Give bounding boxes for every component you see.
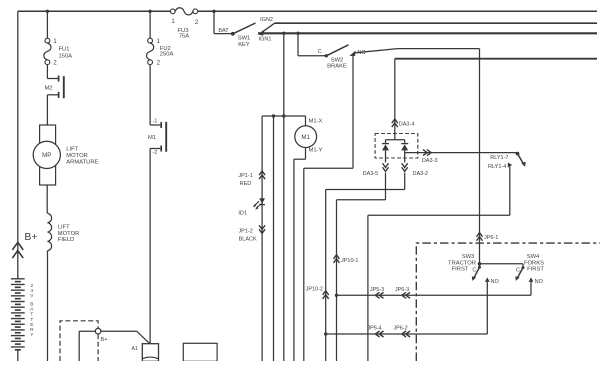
svg-text:SW3: SW3 [462, 254, 475, 260]
svg-text:JP6-3: JP6-3 [395, 287, 409, 293]
svg-text:JP10-1: JP10-1 [341, 258, 358, 264]
label JP10-2 [306, 287, 323, 293]
dashed box DA3 [375, 134, 418, 159]
switch SW3 arm [472, 266, 481, 281]
connector JP1-2 chevrons [259, 225, 265, 233]
connector JP5-3 chevrons [375, 292, 383, 298]
svg-text:JP1-2: JP1-2 [238, 229, 252, 235]
svg-text:JP6-1: JP6-1 [484, 235, 498, 241]
node: junction BAT tap [212, 10, 215, 13]
switch SW1 arm [233, 23, 256, 34]
wire: SW4 NO drop to JP5-3 rail [337, 282, 532, 295]
wire: SW2 NO right rail [398, 48, 480, 50]
svg-text:BLACK: BLACK [239, 237, 257, 243]
node: JP5-3 rail junction [335, 294, 338, 297]
label lift motor armature [66, 147, 98, 166]
svg-text:RLY1-4: RLY1-4 [488, 164, 506, 170]
svg-text:150A: 150A [59, 54, 73, 60]
connector chevrons B+ feeder [12, 242, 23, 258]
wire: SW2 common feed [282, 32, 325, 56]
svg-text:MOTOR: MOTOR [58, 231, 79, 237]
wire: top battery rail y=11 [18, 10, 597, 12]
motor MP armature circle [33, 141, 60, 168]
label JP10-1 [341, 258, 358, 264]
label B+ node [101, 337, 108, 343]
wire: JP1 drop [261, 116, 263, 361]
label A1 [132, 346, 138, 352]
label 24V BATTERY (vertical) [30, 283, 34, 338]
wire: IGN1 rail y=33 [258, 32, 597, 34]
label SW2 BRAKE [327, 57, 347, 69]
wire: DA3-3 rail [405, 152, 518, 154]
connector DA3-3 chevrons [423, 150, 431, 156]
svg-text:SW1: SW1 [238, 35, 251, 41]
label DA3-2 [413, 171, 429, 177]
label IGN2 [260, 17, 273, 23]
svg-text:T: T [30, 317, 33, 323]
svg-text:-2: -2 [153, 150, 158, 156]
node B+ terminal [95, 328, 101, 334]
label FU1 value [59, 46, 73, 59]
label SW4 C [516, 267, 520, 273]
label RLY1-7 [490, 155, 508, 161]
connector JP6-2 chevrons [402, 331, 410, 337]
label lift motor field [58, 224, 79, 243]
svg-text:B: B [30, 302, 33, 308]
label DA3-3 [422, 158, 438, 164]
svg-text:IGN1: IGN1 [259, 37, 272, 43]
svg-text:LIFT: LIFT [58, 224, 70, 230]
svg-text:M2: M2 [44, 86, 52, 92]
inductor lift motor field [48, 213, 52, 250]
label FORKS FIRST [524, 260, 544, 272]
label FU3 pin 2 [195, 20, 199, 26]
svg-text:LIFT: LIFT [66, 147, 78, 153]
connector DA3-2 chevrons [402, 163, 408, 171]
node: JP5-4 rail junction [324, 332, 327, 335]
label M2 [44, 86, 52, 92]
node: junction FU2 tap [148, 10, 151, 13]
wire: SW3 to SW4 link [480, 264, 524, 268]
diode DA3 left [382, 140, 389, 163]
label IGN1 [259, 37, 272, 43]
svg-text:SW2: SW2 [331, 57, 344, 63]
svg-text:DA3-4: DA3-4 [399, 122, 415, 128]
label M1-Y [309, 148, 323, 154]
svg-text:DA3-5: DA3-5 [363, 171, 379, 177]
label BAT [218, 28, 229, 34]
wire: FU2 to M1 contact [149, 65, 151, 125]
svg-text:FIRST: FIRST [527, 267, 544, 273]
wire: SW2-NO lower rail y=59 [395, 58, 597, 60]
fuse FU1 [44, 38, 51, 64]
label FU1 pin 1 [53, 39, 57, 45]
label SW4 NO [535, 279, 544, 285]
node: SW1 common [231, 32, 235, 36]
wire: dashed branch to B+ node [60, 321, 98, 361]
wire: battery to bottom [17, 350, 19, 361]
wire: M1-X stub [305, 116, 307, 126]
label M1-X [309, 119, 323, 125]
svg-text:FIRST: FIRST [452, 267, 469, 273]
wire: M1 contact to A1 box [149, 149, 151, 344]
label B+ [24, 231, 37, 243]
label FU2 pin 2 [157, 61, 161, 67]
terminal RLY1-4 arrowhead [508, 163, 512, 168]
terminal SW2 NO arrowhead [349, 51, 355, 56]
wire: FU1 top lead [46, 11, 48, 38]
label SW4 [527, 254, 540, 260]
svg-text:M1: M1 [148, 135, 156, 141]
svg-text:IGN2: IGN2 [260, 17, 273, 23]
svg-text:ARMATURE: ARMATURE [66, 160, 98, 166]
svg-text:JP5-3: JP5-3 [370, 287, 384, 293]
svg-text:DA3-2: DA3-2 [413, 171, 429, 177]
svg-text:SW4: SW4 [527, 254, 540, 260]
svg-text:C: C [472, 267, 476, 273]
svg-text:250A: 250A [160, 51, 174, 57]
wire: armature to field [46, 185, 48, 213]
battery 24V [11, 279, 25, 350]
wire: JP6-1 drop [479, 49, 481, 267]
label SW2 NO [357, 50, 366, 56]
svg-text:JP10-2: JP10-2 [306, 287, 323, 293]
svg-text:TRACTOR: TRACTOR [448, 260, 476, 266]
svg-text:NO: NO [535, 279, 544, 285]
label M1 contact pin 2 [153, 150, 158, 156]
svg-text:KEY: KEY [238, 42, 250, 48]
node: junction FU1 tap [46, 10, 49, 13]
svg-text:ID1: ID1 [238, 210, 247, 216]
svg-text:MP: MP [42, 152, 51, 159]
wire: M1 coil feed rail [262, 114, 305, 117]
label ID1 [238, 210, 247, 216]
diode DA3 right [401, 140, 408, 163]
wire: SW3 NO drop to JP5-4 rail [326, 282, 488, 334]
label JP5-3 [370, 287, 384, 293]
node: RLY1-7 common [516, 152, 520, 156]
label DA3-4 [399, 122, 415, 128]
wire: BAT lead [214, 11, 232, 33]
switch SW4 arm [515, 266, 524, 281]
fuse FU3 [170, 8, 197, 15]
svg-text:FU1: FU1 [59, 46, 70, 52]
label FU3 pin 1 [171, 19, 175, 25]
wire: DA3-2 drop to JP10-2 [326, 173, 405, 361]
connector DA3-5 chevrons [383, 163, 389, 171]
label SW3 NO [491, 279, 500, 285]
svg-text:JP6-2: JP6-2 [393, 326, 407, 332]
label MP [42, 152, 51, 159]
fuse FU2 [147, 38, 154, 64]
connector JP6-1 chevrons [477, 233, 483, 241]
label SW2 C [318, 49, 322, 55]
svg-text:RLY1-7: RLY1-7 [490, 155, 508, 161]
label JP6-1 [484, 235, 498, 241]
wire: M1-Y lead [294, 148, 306, 362]
contactor contact M2 [47, 76, 63, 99]
svg-text:NO: NO [491, 279, 500, 285]
label JP1-1 RED [238, 173, 252, 187]
wire: dashed below B+ node [97, 334, 99, 361]
svg-text:A1: A1 [132, 346, 138, 352]
svg-text:-1: -1 [153, 118, 158, 124]
label RLY1-4 [488, 164, 506, 170]
label FU1 pin 2 [53, 61, 57, 67]
svg-text:R: R [30, 327, 34, 333]
node: SW2 common contact [325, 54, 328, 57]
LED ID1 [253, 198, 265, 209]
connector JP1-1 chevrons [259, 171, 265, 179]
terminal IGN1 arrowhead [258, 30, 265, 36]
svg-text:DA3-3: DA3-3 [422, 158, 438, 164]
label DA3-5 [363, 171, 379, 177]
wire: IGN1 riser diagonal [263, 23, 275, 32]
wire: NO branch horizontal jog [304, 167, 353, 169]
label FU2 pin 1 [157, 39, 161, 45]
svg-text:FORKS: FORKS [524, 260, 544, 266]
switch RLY1 arm [518, 154, 526, 167]
contactor coil M1 [295, 126, 317, 148]
label JP6-2 [393, 326, 407, 332]
dashed boundary [416, 243, 600, 361]
wire: NO branch long vertical [303, 168, 305, 361]
wire: B+ node to A1 [101, 331, 149, 343]
wire: field to bottom [47, 251, 49, 361]
svg-text:T: T [30, 312, 33, 318]
wire: SW2 NO down branch [352, 56, 354, 168]
label JP1-2 BLACK [238, 229, 257, 243]
label M1 contact [148, 135, 156, 141]
wire: FU1 to M2 [46, 65, 48, 79]
label SW3 C [472, 267, 476, 273]
label M1 coil [301, 134, 310, 141]
wire: ignition drop to M1 rail [283, 33, 285, 361]
svg-text:C: C [516, 267, 520, 273]
svg-text:M1: M1 [301, 134, 310, 141]
svg-text:BRAKE: BRAKE [327, 64, 347, 70]
node: SW3 feed junction [478, 262, 482, 266]
wire: parallel drop [273, 116, 275, 361]
svg-text:BAT: BAT [218, 28, 229, 34]
label SW1 KEY [238, 35, 251, 48]
switch SW2 arm [326, 45, 348, 56]
label SW3 [462, 254, 475, 260]
label JP6-3 [395, 287, 409, 293]
svg-text:FIELD: FIELD [58, 237, 74, 243]
svg-text:C: C [318, 49, 322, 55]
label FU3 value [178, 28, 190, 40]
connector JP10-2 chevrons [323, 291, 329, 299]
wire: SW2 NO right branch diagonal [355, 49, 398, 53]
box A1 [142, 344, 158, 362]
label FU2 value [160, 46, 174, 57]
wire: IGN2 rail y=23 [274, 22, 597, 24]
box controller [183, 343, 217, 361]
label M1 contact pin 1 [153, 118, 158, 124]
wire: diode top bar [386, 139, 405, 141]
svg-text:75A: 75A [179, 34, 189, 40]
connector JP6-3 chevrons [402, 292, 410, 298]
svg-text:JP5-4: JP5-4 [367, 326, 381, 332]
svg-text:M1-X: M1-X [309, 119, 323, 125]
svg-text:B+: B+ [101, 337, 108, 343]
terminal SW3 NO arrowhead [485, 277, 490, 282]
label TRACTOR FIRST [448, 260, 476, 272]
connector JP10-1 chevrons [334, 255, 340, 263]
svg-text:RED: RED [240, 181, 252, 187]
svg-text:JP1-1: JP1-1 [238, 173, 252, 179]
contactor contact M1 [150, 122, 166, 152]
wire: DA3-5 drop to JP10-1 [337, 173, 386, 361]
wire: RLY1-4 drop [368, 167, 510, 362]
connector DA3-4 chevrons [392, 119, 398, 127]
wire: B+ node left branch [79, 331, 95, 361]
svg-text:M1-Y: M1-Y [309, 148, 323, 154]
svg-text:MOTOR: MOTOR [66, 153, 87, 159]
wire: left battery feeder (vertical) [17, 11, 19, 279]
connector JP5-4 chevrons [375, 331, 383, 337]
wire: M2 to lift motor [46, 95, 48, 125]
svg-text:E: E [30, 322, 33, 328]
terminal SW4 NO arrowhead [529, 277, 534, 282]
svg-text:B+: B+ [24, 231, 37, 243]
wire: FU2 top lead [149, 11, 151, 38]
wire: DA3-4 drop [394, 59, 396, 140]
label JP5-4 [367, 326, 381, 332]
motor MP frame [40, 125, 56, 185]
